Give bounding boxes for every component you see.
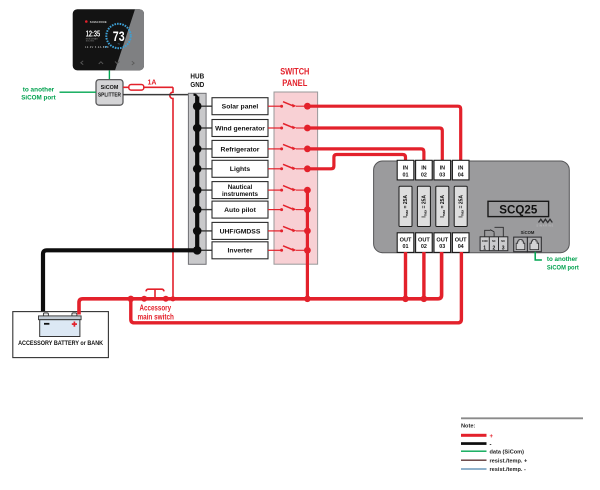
- wire: red riser from fuse to main bus (with hop over black wire): [170, 87, 173, 296]
- svg-text:2: 2: [493, 245, 496, 251]
- load box: Inverter: [212, 242, 268, 259]
- HUB GND label: [190, 73, 204, 89]
- legend: - (black): [461, 442, 492, 448]
- SiCOM jack J2: [527, 237, 541, 252]
- load box: Wind generator: [212, 120, 268, 137]
- svg-text:IN: IN: [403, 166, 408, 172]
- port IN02: [416, 160, 433, 180]
- svg-text:+: +: [490, 434, 494, 440]
- svg-text:data (SiCom): data (SiCom): [490, 449, 525, 455]
- legend: resist./temp. -: [461, 467, 526, 473]
- port OUT02: [416, 233, 433, 253]
- port IN04: [452, 160, 469, 180]
- svg-text:PANEL: PANEL: [282, 77, 307, 88]
- wire: S2 to IN03: [307, 128, 442, 161]
- fuse F2 Imax 25A: [417, 186, 430, 226]
- svg-text:IN: IN: [458, 166, 463, 172]
- svg-text:SIMARINE: SIMARINE: [536, 225, 554, 228]
- svg-text:SIMARINE: SIMARINE: [90, 20, 107, 24]
- wire: data (SiCom) to another SiCOM port (right): [535, 252, 542, 260]
- svg-text:03: 03: [439, 244, 445, 250]
- load box: Nautical instruments: [212, 182, 268, 199]
- svg-text:3: 3: [502, 245, 505, 251]
- svg-text:SiCOM port: SiCOM port: [21, 95, 56, 102]
- svg-text:1A: 1A: [148, 79, 157, 86]
- svg-text:SiCOM port: SiCOM port: [547, 265, 580, 272]
- SiCOM jack J1: [514, 237, 528, 252]
- svg-text:resist./temp. -: resist./temp. -: [490, 467, 527, 473]
- load box: Solar panel: [212, 98, 268, 115]
- SCQ25 nameplate: [488, 201, 549, 216]
- switch output nodes: [304, 103, 311, 254]
- svg-text:03: 03: [439, 172, 445, 178]
- svg-text:GND: GND: [190, 82, 204, 89]
- switch S6 (auto pilot): [268, 205, 307, 211]
- load box: Lights: [212, 160, 268, 177]
- port OUT04: [452, 233, 469, 253]
- switch S5 (nautical instruments): [268, 186, 307, 192]
- fuse F1 Imax 25A: [399, 186, 412, 226]
- fuse F1 1A: [129, 85, 144, 91]
- svg-text:COM: COM: [482, 240, 488, 243]
- svg-text:Accessory: Accessory: [140, 303, 172, 312]
- switch S3 (refrigerator): [268, 144, 307, 150]
- svg-text:Inverter: Inverter: [228, 248, 253, 255]
- label: to another SiCOM port (right): [547, 256, 580, 272]
- wire: switch panel bus (S5-S8 to main bus): [306, 190, 309, 299]
- svg-text:to another: to another: [23, 86, 55, 93]
- switch S2 (wind generator): [268, 124, 307, 130]
- port OUT01: [397, 233, 414, 253]
- svg-text:04: 04: [458, 172, 464, 178]
- svg-text:main switch: main switch: [137, 312, 174, 321]
- relay terminal block COM/NC/NO: [480, 237, 508, 252]
- load branch wires (black, hub to loads): [197, 106, 213, 250]
- svg-text:UHF/GMDSS: UHF/GMDSS: [220, 228, 261, 235]
- junction nodes on main bus: [128, 296, 428, 303]
- wire: S1 to IN04: [307, 106, 460, 160]
- svg-text:IN: IN: [440, 166, 445, 172]
- label: SWITCH PANEL: [280, 65, 309, 87]
- svg-text:SCQ25: SCQ25: [499, 202, 537, 216]
- port OUT03: [434, 233, 451, 253]
- switch S7 (UHF/GMDSS): [268, 226, 307, 232]
- svg-text:instruments: instruments: [222, 191, 259, 198]
- accessory main switch SW1: [141, 289, 169, 302]
- svg-text:IN: IN: [421, 166, 426, 172]
- display unit U1 (SIMARINE PICO monitor): [73, 9, 144, 70]
- wire: data (SiCom) display to splitter: [108, 70, 110, 79]
- accessory battery box: [13, 312, 109, 358]
- svg-text:Wind generator: Wind generator: [215, 125, 265, 132]
- load box: UHF/GMDSS: [212, 222, 268, 239]
- wire: hub ground bus line: [194, 95, 198, 99]
- svg-text:SPLITTER: SPLITTER: [98, 93, 121, 99]
- wire: red + feed from splitter through fuse: [123, 86, 173, 88]
- svg-text:NO: NO: [501, 240, 505, 243]
- load box: Refrigerator: [212, 140, 268, 157]
- svg-text:Auto pilot: Auto pilot: [224, 207, 256, 214]
- port IN01: [397, 160, 414, 180]
- svg-text:OUT: OUT: [455, 238, 467, 244]
- svg-text:Solar panel: Solar panel: [222, 104, 259, 111]
- wire: battery minus to hub gnd: [43, 250, 194, 314]
- port IN03: [434, 160, 451, 180]
- svg-text:SOC 85%: SOC 85%: [86, 41, 95, 43]
- HUB GND bar: [188, 93, 206, 264]
- label: Accessory main switch: [137, 303, 174, 321]
- svg-text:OUT: OUT: [418, 238, 430, 244]
- battery - terminal mark: [44, 323, 49, 325]
- wire: battery + to main bus and OUT03: [79, 252, 442, 315]
- svg-text:Note:: Note:: [461, 424, 475, 430]
- SiCOM splitter: [96, 80, 123, 106]
- switch panel enclosure: [274, 92, 318, 264]
- SCQ25 body: [374, 161, 570, 253]
- svg-text:04: 04: [458, 244, 464, 250]
- svg-text:SWITCH: SWITCH: [280, 65, 309, 76]
- svg-text:resist./temp. +: resist./temp. +: [490, 458, 529, 464]
- svg-text:ACCESSORY BATTERY or BANK: ACCESSORY BATTERY or BANK: [18, 340, 103, 347]
- svg-text:%: %: [118, 43, 120, 45]
- battery BT1 icon: [43, 313, 48, 316]
- wire: S3 to IN02: [307, 149, 424, 161]
- note divider: [461, 417, 583, 419]
- svg-text:73: 73: [113, 29, 125, 44]
- wire: S4 to IN01: [307, 155, 405, 169]
- switch S4 (lights): [268, 164, 307, 170]
- svg-text:Refrigerator: Refrigerator: [221, 146, 260, 153]
- svg-text:02: 02: [421, 172, 427, 178]
- relay contact symbol: [485, 227, 504, 237]
- svg-text:to another: to another: [547, 256, 578, 263]
- svg-text:NC: NC: [492, 240, 496, 243]
- svg-text:02: 02: [421, 244, 427, 250]
- svg-text:1: 1: [483, 245, 486, 251]
- label: to another SiCOM port (left): [21, 86, 56, 101]
- battery + terminal mark: [72, 323, 77, 325]
- svg-text:Lights: Lights: [230, 166, 251, 173]
- load box: Auto pilot: [212, 201, 268, 218]
- wire: data (SiCom) to another SiCOM port (left): [60, 91, 97, 93]
- wire: OUT01 riser: [404, 252, 407, 299]
- legend: + (red): [461, 434, 494, 440]
- svg-text:OUT: OUT: [436, 238, 448, 244]
- wire: OUT02 riser: [422, 252, 425, 299]
- wire: black - from splitter to HUB GND bar: [123, 94, 194, 96]
- svg-text:01: 01: [403, 244, 409, 250]
- legend: resist./temp. +: [461, 458, 528, 464]
- legend: data (SiCom): [461, 449, 524, 455]
- svg-text:SiCOM: SiCOM: [101, 85, 119, 91]
- SIMARINE logo: [536, 219, 554, 227]
- svg-text:SiCOM: SiCOM: [521, 230, 535, 235]
- switch S8 (inverter): [268, 246, 307, 252]
- svg-text:OUT: OUT: [400, 238, 412, 244]
- fuse F3 Imax 25A: [436, 186, 449, 226]
- switch S1 (solar panel): [268, 102, 307, 108]
- wire: unswitched feed to OUT04: [131, 252, 462, 323]
- svg-text:-: -: [490, 442, 492, 448]
- hub junction nodes: [193, 102, 202, 255]
- svg-text:01: 01: [403, 172, 409, 178]
- fuse F4 Imax 25A: [454, 186, 467, 226]
- svg-text:HUB: HUB: [190, 73, 204, 80]
